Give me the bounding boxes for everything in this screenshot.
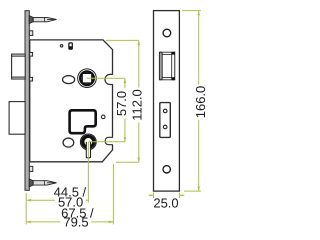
lock case fill xyxy=(30,40,113,162)
top screw hole xyxy=(163,29,171,37)
faceplate vertical extension xyxy=(25,193,27,224)
57.0 dim line xyxy=(124,78,126,142)
25.0 right extension xyxy=(178,193,180,199)
case edge notch (follower level) xyxy=(105,137,113,144)
deadbolt (side view) xyxy=(9,102,25,135)
25.0 left extension xyxy=(153,193,155,199)
hub extension to 57.0 line xyxy=(87,77,125,79)
right view arrows xyxy=(150,11,200,197)
bottom fixing tab xyxy=(29,166,32,171)
oval hole lower xyxy=(63,138,74,147)
svg-text:57.0: 57.0 xyxy=(114,91,129,116)
svg-text:25.0: 25.0 xyxy=(153,196,178,211)
dimension text xyxy=(54,85,208,230)
latch top tab xyxy=(29,53,32,57)
small screw (top of case) xyxy=(60,44,64,48)
svg-text:166.0: 166.0 xyxy=(193,86,208,119)
dimension lines (green) xyxy=(26,40,139,224)
112.0 bottom extension xyxy=(116,161,139,163)
bottom screw hole xyxy=(163,166,170,173)
top frame spike xyxy=(29,16,56,24)
small hole right of cam xyxy=(101,115,105,119)
small retainer (top of case) xyxy=(69,43,72,49)
166.0 top tick xyxy=(182,10,201,12)
166.0 bottom tick xyxy=(184,190,201,192)
case edge vertical extension xyxy=(112,164,114,224)
dimension arrows (left view) xyxy=(26,40,140,223)
25.0 right stub xyxy=(179,194,184,196)
67.5/79.5 dim line xyxy=(26,221,113,223)
spindle hub xyxy=(78,69,97,88)
166.0 dim line xyxy=(198,11,200,192)
latch cutout (front view) xyxy=(159,52,175,80)
44.5/57.0 dim line xyxy=(26,199,88,201)
166.0 vertical xyxy=(193,85,208,120)
112.0 top extension xyxy=(106,39,139,41)
latch bolt (side view) xyxy=(12,54,26,79)
112.0 dim line xyxy=(138,40,140,162)
25.0 left stub xyxy=(149,194,154,196)
latch bottom tab xyxy=(29,77,32,81)
top fixing tab xyxy=(29,31,32,36)
case left edge xyxy=(29,40,31,162)
57.0 vertical xyxy=(114,89,129,119)
svg-text:112.0: 112.0 xyxy=(130,89,145,121)
follower vertical extension xyxy=(87,142,89,203)
lock case outline xyxy=(30,40,113,162)
right view: forend plate xyxy=(154,11,180,192)
svg-text:79.5: 79.5 xyxy=(63,214,88,229)
faceplate (side view, left) xyxy=(25,11,29,191)
bottom frame spike xyxy=(29,179,56,187)
right view dimensions (green) xyxy=(149,11,201,198)
bathroom cam cutout xyxy=(70,110,96,133)
follower extension to 57.0 line xyxy=(88,141,125,143)
112.0 vertical xyxy=(130,88,145,123)
turn follower xyxy=(80,134,96,158)
oval hole upper xyxy=(63,76,75,84)
case edge notch (hub level) xyxy=(105,74,113,84)
snib cutout (front view) xyxy=(160,103,171,138)
